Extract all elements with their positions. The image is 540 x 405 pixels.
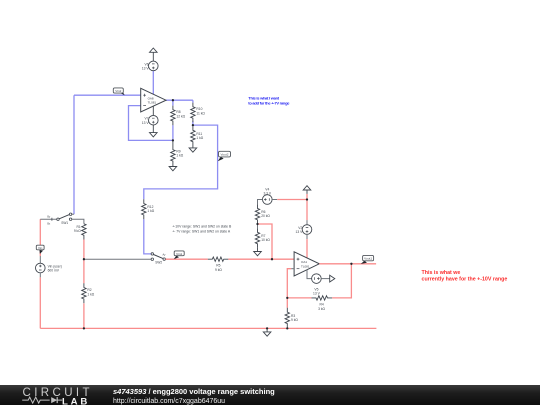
switch SW2 [154, 255, 164, 259]
wire R10 bottom to Vout2 vertical (blue) [144, 125, 218, 199]
wire Vin2 net: left vertical + horizontal to OA8 +input [74, 95, 141, 214]
wire SW2 pole to R5 (red) [166, 258, 208, 260]
svg-text:Ay: Ay [163, 252, 167, 256]
svg-text:9 kΩ: 9 kΩ [291, 318, 298, 322]
vcc arrow above node [306, 194, 308, 200]
resistor R10 11 kOhm [191, 103, 195, 123]
svg-text:13 V: 13 V [142, 121, 150, 125]
resistor R6 20 kOhm [255, 204, 259, 224]
svg-text:SW2: SW2 [155, 261, 162, 265]
svg-text:13 V: 13 V [142, 67, 150, 71]
wire feedback node down to R3 (red) [286, 298, 288, 308]
svg-text:SW1: SW1 [61, 221, 68, 225]
svg-text:13 V: 13 V [313, 292, 321, 296]
wire VCC node down to V2 (red) [306, 200, 308, 221]
voltage source V7 13 V [152, 106, 154, 115]
svg-text:600 mV: 600 mV [48, 269, 60, 273]
svg-text:20 kΩ: 20 kΩ [261, 214, 270, 218]
wire SW1 bottom contact to R1 [72, 219, 84, 224]
wire OA1 output (red) [319, 263, 376, 265]
svg-text:1 kΩ: 1 kΩ [176, 154, 183, 158]
junction dots (red net) [306, 198, 308, 200]
svg-text:Vin1: Vin1 [176, 252, 182, 256]
wire R5 to OA1 +input (red) [228, 258, 294, 260]
resistor R5 9 kOhm (horizontal) [208, 257, 229, 261]
resistor R8 12 kOhm [171, 106, 175, 126]
wire V4 right to VCC node (red) [272, 199, 277, 201]
svg-text:3.3 V: 3.3 V [263, 192, 271, 196]
wire R12 bottom to SW2 top contact (blue) [144, 219, 151, 254]
svg-text:currently have for the +-10V r: currently have for the +-10V range [422, 276, 508, 282]
svg-text:s4743593 / engg2800 voltage ra: s4743593 / engg2800 voltage range switch… [113, 386, 275, 395]
wire OA8 output net (blue) [166, 99, 193, 101]
wire V4 left to R6 top [258, 200, 263, 205]
resistor R1 9 kOhm [82, 224, 86, 240]
svg-text:Vout2: Vout2 [221, 153, 229, 157]
ground below V7 [152, 125, 154, 133]
wire output down to R4 (red) [332, 264, 351, 298]
svg-text:+- 7V range: SW1 and SW2 on st: +- 7V range: SW1 and SW2 on state A [172, 230, 231, 234]
wire OA8 feedback loop (blue) [129, 106, 173, 141]
ground on bottom rail [266, 328, 268, 332]
svg-text:+-10V range: SW1 and SW2 on st: +-10V range: SW1 and SW2 on state B [172, 225, 232, 229]
vcc arrow above V6 [152, 52, 154, 61]
resistor R4 3 kOhm (horizontal) [312, 296, 333, 300]
svg-text:12 kΩ: 12 kΩ [176, 114, 185, 118]
junction dots (blue net) [172, 99, 174, 101]
wire R8 bottom to feedback row (blue) [172, 125, 174, 140]
svg-text:13 V: 13 V [296, 230, 304, 234]
footer bar [0, 385, 540, 405]
voltage source V4 3.3 V [263, 195, 273, 205]
node Vout2 flag [218, 157, 224, 162]
wire stub SW1 top contact to blue vertical [72, 213, 74, 215]
wire R1 bottom to R2, with tap to SW2 [83, 240, 85, 284]
resistor R12 1 kOhm [142, 199, 146, 219]
resistor R9 1 kOhm [171, 140, 175, 166]
node Vin1 flag [174, 256, 179, 260]
wire Vin source top to SW1 pole [39, 256, 41, 263]
wire Vin source bottom to rail [39, 273, 41, 278]
wire V6 to OA8 V+ pin (blue) [152, 71, 154, 95]
junction dots (middle) [83, 258, 85, 260]
resistor R3 9 kOhm [285, 308, 289, 328]
svg-text:11 kΩ: 11 kΩ [196, 111, 205, 115]
svg-text:1 kΩ: 1 kΩ [87, 292, 94, 296]
svg-text:1 kΩ: 1 kΩ [147, 209, 154, 213]
node Vout1 flag [361, 261, 367, 264]
switch SW1 [59, 215, 69, 219]
svg-text:1 kΩ: 1 kΩ [196, 136, 203, 140]
voltage source V6 13 V [149, 61, 159, 71]
voltage source V2 13 V [302, 225, 312, 235]
node Vin flag [39, 250, 43, 254]
resistor R7 10 kOhm [255, 228, 259, 248]
bottom rail (red) [40, 327, 376, 329]
svg-text:TL081: TL081 [301, 264, 310, 268]
wire R4 to feedback node (red) [287, 297, 311, 299]
op-amp OA1 TL081 [294, 252, 319, 276]
ground below R9 [169, 167, 177, 171]
svg-text:LAB: LAB [62, 396, 90, 405]
svg-text:TL081: TL081 [148, 101, 157, 105]
voltage source V5 13 V [312, 274, 322, 284]
wire junction down to R7 [257, 224, 259, 228]
svg-text:Vin: Vin [38, 246, 43, 250]
wire OA1 V- pin to V5 [307, 270, 312, 279]
ground below R11 [189, 148, 197, 152]
svg-text:Vin2: Vin2 [115, 89, 121, 93]
node Vin2 flag [119, 90, 125, 95]
svg-text:http://circuitlab.com/c7xggab6: http://circuitlab.com/c7xggab6476uu [113, 397, 225, 404]
wire R2 bottom to rail [83, 303, 85, 328]
resistor R11 1 kOhm [191, 125, 195, 148]
svg-text:9 kΩ: 9 kΩ [74, 229, 81, 233]
svg-text:This is what we: This is what we [422, 270, 461, 276]
svg-text:Bx: Bx [47, 223, 51, 226]
svg-text:Vout1: Vout1 [364, 257, 372, 261]
vee arrow right of V5 [321, 278, 330, 280]
svg-text:to add for the +-7V range: to add for the +-7V range [248, 100, 290, 105]
voltage source Vin (user) 600 mV [36, 263, 46, 273]
wire R10 branch verticals (blue) [192, 100, 194, 125]
svg-text:10 kΩ: 10 kΩ [261, 238, 270, 242]
wire R6 bottom junction, tap to OA1 +in (red) [258, 224, 273, 259]
op-amp OA8 TL081 [141, 88, 166, 112]
svg-text:3 kΩ: 3 kΩ [318, 307, 325, 311]
wire feedback node up to OA1 -input (red) [287, 269, 291, 298]
wire V2 bottom to OA1 V+ pin (red) [306, 234, 308, 239]
CircuitLab logo schematic glyph (resistor + diode) [22, 397, 62, 403]
wire R8 top lead (blue) [172, 100, 174, 105]
ground below R7 [257, 248, 259, 252]
resistor R2 1 kOhm [82, 283, 86, 303]
svg-text:By: By [47, 216, 51, 219]
svg-text:9 kΩ: 9 kΩ [215, 268, 222, 272]
